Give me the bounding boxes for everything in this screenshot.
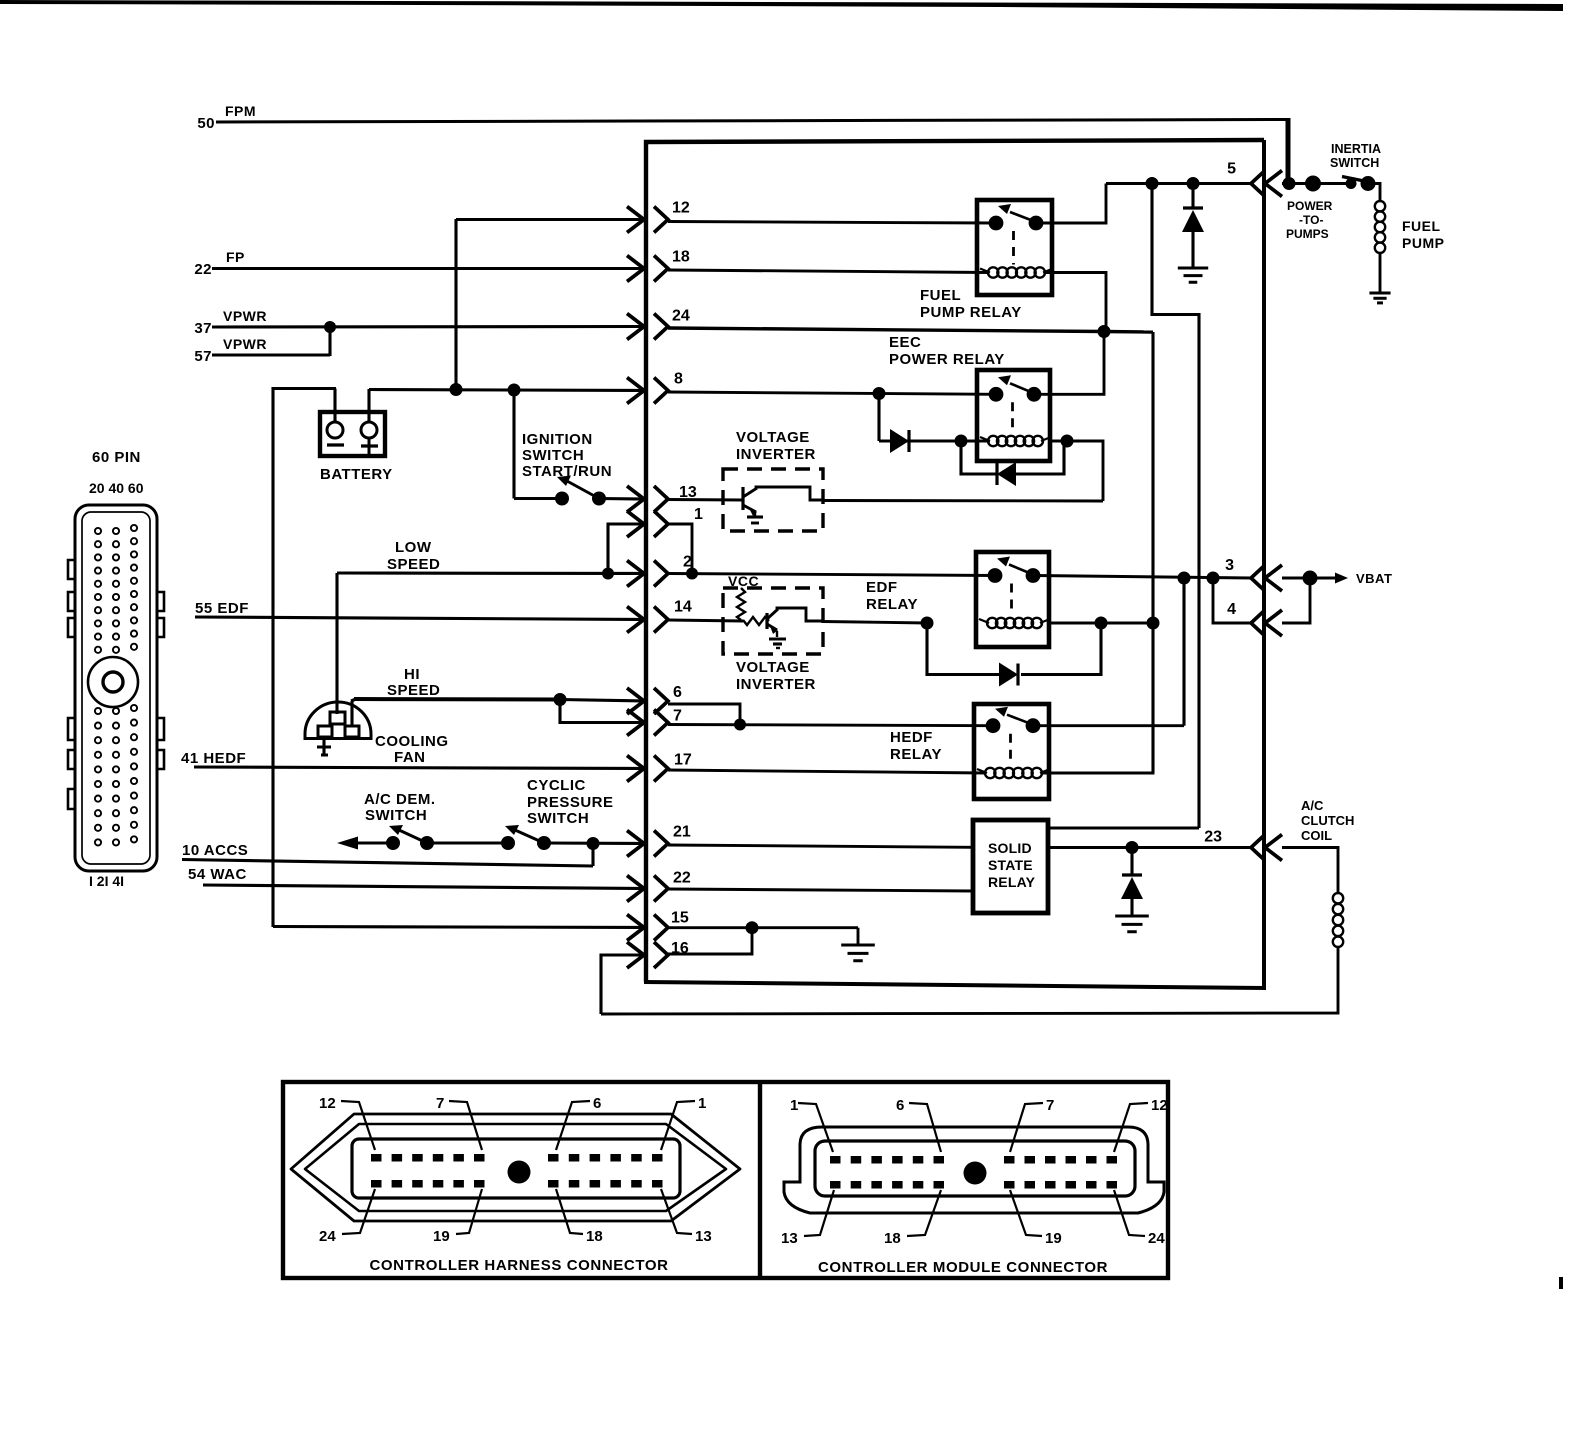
pin 23 entry xyxy=(1204,829,1282,861)
svg-text:SPEED: SPEED xyxy=(387,682,440,699)
wire pin 14 to inverter 2 xyxy=(668,620,743,621)
pin 18 entry xyxy=(627,249,690,282)
pin 21 entry xyxy=(627,824,691,857)
wire pin4 to VBAT xyxy=(1282,578,1310,623)
module pin 18 label xyxy=(884,1190,941,1247)
node pin 8 diode branch xyxy=(873,387,886,400)
harness pin 12 label xyxy=(319,1095,375,1150)
svg-text:13: 13 xyxy=(781,1230,798,1247)
label EDF relay xyxy=(866,579,918,613)
svg-text:COIL: COIL xyxy=(1301,828,1332,843)
harness pin 1 label xyxy=(661,1095,706,1150)
svg-text:23: 23 xyxy=(1204,829,1222,846)
svg-text:8: 8 xyxy=(674,371,683,388)
svg-text:SWITCH: SWITCH xyxy=(1330,156,1379,170)
label voltage inverter 2 xyxy=(736,659,816,693)
node EEC coil right xyxy=(1061,435,1074,448)
wire pin3 to VBAT xyxy=(1282,577,1310,580)
diode CR5 to ground xyxy=(1115,848,1149,932)
svg-text:INERTIA: INERTIA xyxy=(1331,142,1381,156)
svg-text:PUMP RELAY: PUMP RELAY xyxy=(920,304,1022,321)
svg-text:STATE: STATE xyxy=(988,857,1033,873)
wire HEDF feed drop xyxy=(1182,578,1185,726)
pin 5 entry xyxy=(1227,161,1282,197)
wire between switches xyxy=(427,841,508,844)
label inertia switch xyxy=(1330,142,1381,170)
wire EEC coil right path xyxy=(1050,441,1103,501)
wire 41 HEDF to pin 17 xyxy=(194,767,644,769)
svg-text:18: 18 xyxy=(586,1228,603,1245)
wire clutch coil return xyxy=(601,947,1338,1014)
svg-text:POWER RELAY: POWER RELAY xyxy=(889,351,1005,368)
svg-text:FUEL: FUEL xyxy=(1402,218,1441,234)
svg-text:LOW: LOW xyxy=(395,539,432,556)
label hi speed xyxy=(387,666,440,699)
svg-text:VOLTAGE: VOLTAGE xyxy=(736,429,810,446)
label controller module connector xyxy=(818,1259,1108,1276)
label low speed xyxy=(387,539,440,573)
wire 54 WAC to pin 22 xyxy=(203,885,644,889)
node power junction xyxy=(1305,176,1321,192)
wire VPWR to EDF-HEDF rail xyxy=(1104,332,1153,774)
scan artifact top bar xyxy=(0,0,1563,11)
60 pin connector J1 xyxy=(68,505,164,871)
svg-text:60 PIN: 60 PIN xyxy=(92,449,141,466)
wire diode to coil xyxy=(879,440,990,443)
wire SSR to pin 23 xyxy=(1048,846,1251,849)
svg-text:PUMPS: PUMPS xyxy=(1286,227,1329,241)
wire pin 13 to inverter xyxy=(668,498,743,501)
harness connector pins xyxy=(371,1154,663,1188)
svg-text:EDF: EDF xyxy=(866,579,898,596)
svg-text:4: 4 xyxy=(1227,601,1236,618)
wire ignition switch to pin 13 xyxy=(599,497,644,501)
A/C clutch coil L1 xyxy=(1333,893,1343,947)
svg-text:CLUTCH: CLUTCH xyxy=(1301,813,1354,828)
module pin 1 label xyxy=(790,1097,833,1152)
node EEC coil left xyxy=(955,435,968,448)
svg-text:7: 7 xyxy=(436,1095,444,1112)
svg-text:PRESSURE: PRESSURE xyxy=(527,794,614,811)
wire VPWR to pin 24 xyxy=(212,325,644,329)
wire pin 5 to inertia switch xyxy=(1282,182,1352,185)
wire inertia to fuel pump xyxy=(1368,184,1380,202)
fuel pump relay K1 xyxy=(977,200,1053,295)
svg-text:1: 1 xyxy=(694,506,703,523)
wire 10 ACCS xyxy=(182,843,593,866)
svg-text:55 EDF: 55 EDF xyxy=(195,600,249,617)
svg-text:1: 1 xyxy=(698,1095,706,1112)
label voltage inverter 1 xyxy=(736,429,816,463)
node VBAT/ignition branch xyxy=(508,384,521,397)
label cyclic pressure switch xyxy=(527,777,614,827)
label solid state relay xyxy=(988,840,1036,890)
EEC power relay K2 xyxy=(977,370,1051,461)
svg-text:FAN: FAN xyxy=(394,749,426,766)
module connector center hole xyxy=(964,1162,987,1185)
wire EEC relay switch output xyxy=(1035,332,1104,395)
svg-text:5: 5 xyxy=(1227,161,1236,178)
module pin 7 label xyxy=(1010,1097,1054,1152)
svg-text:VBAT: VBAT xyxy=(1356,571,1392,586)
fuel pump coil M2 xyxy=(1375,201,1385,253)
voltage inverter U2 xyxy=(723,588,823,654)
wire FPM pin50 to top right xyxy=(216,120,1288,123)
node FPM / power-to-pumps junction xyxy=(1283,177,1296,190)
pin 7 entry xyxy=(627,708,682,736)
wire pin5 branch to SSR rail xyxy=(1152,184,1199,829)
wire pin 12 branch vertical xyxy=(454,219,457,389)
label EEC power relay xyxy=(889,334,1005,368)
pin 13 entry xyxy=(627,484,697,512)
cooling fan M1 xyxy=(305,702,371,739)
node pin5 diode branch xyxy=(1187,177,1200,190)
label fuel pump relay xyxy=(920,287,1022,321)
wire fuel pump relay coil output xyxy=(1046,273,1106,332)
wire EDF switch output pin 3 xyxy=(1035,576,1251,579)
wire pin 7 to HEDF switch xyxy=(668,725,993,726)
svg-text:A/C DEM.: A/C DEM. xyxy=(364,791,436,808)
voltage inverter U1 xyxy=(723,469,823,531)
svg-text:RELAY: RELAY xyxy=(988,874,1036,890)
label battery xyxy=(320,466,393,483)
svg-text:14: 14 xyxy=(674,599,692,616)
module pin 19 label xyxy=(1010,1190,1062,1247)
wire inverter 2 output to EDF coil xyxy=(823,622,927,624)
svg-text:SPEED: SPEED xyxy=(387,556,440,573)
svg-text:INVERTER: INVERTER xyxy=(736,446,816,463)
node low speed / pin1 bracket xyxy=(602,568,614,580)
node pin3 pin4 branch xyxy=(1207,572,1220,585)
svg-text:RELAY: RELAY xyxy=(866,596,918,613)
svg-text:12: 12 xyxy=(319,1095,336,1112)
HEDF relay K4 xyxy=(974,704,1050,799)
svg-text:SWITCH: SWITCH xyxy=(522,447,584,464)
wire pin 24 to VPWR node xyxy=(668,328,1104,332)
wire pin 22 to SSR xyxy=(668,889,973,891)
pin 24 entry xyxy=(627,308,690,340)
svg-text:19: 19 xyxy=(433,1228,450,1245)
harness pin 13 label xyxy=(661,1189,712,1245)
svg-text:PUMP: PUMP xyxy=(1402,235,1444,251)
wire pin 4 inside bracket xyxy=(1213,578,1251,623)
node hi speed / pin 7 bracket xyxy=(554,693,567,706)
wire pin 17 to HEDF coil xyxy=(668,770,985,773)
label 60 pin xyxy=(92,449,141,466)
wire ground rail left xyxy=(271,387,274,927)
svg-text:22: 22 xyxy=(673,870,691,887)
diode CR1 to ground xyxy=(1178,184,1208,283)
A/C demand switch S2 xyxy=(386,825,434,850)
svg-text:10 ACCS: 10 ACCS xyxy=(182,842,248,859)
svg-text:20 40 60: 20 40 60 xyxy=(89,480,144,496)
wire hi speed thick xyxy=(354,697,560,702)
label 20 40 60 xyxy=(89,480,144,496)
ignition switch S1 xyxy=(555,476,606,506)
svg-text:6: 6 xyxy=(673,684,682,701)
label pin 57 VPWR xyxy=(194,336,267,365)
pin 1 entry xyxy=(627,506,703,537)
svg-text:FPM: FPM xyxy=(225,103,256,119)
svg-text:FP: FP xyxy=(226,249,245,265)
harness pin 19 label xyxy=(433,1189,482,1245)
node EDF VPWR junction xyxy=(1147,617,1160,630)
svg-text:1: 1 xyxy=(790,1097,798,1114)
svg-text:I 2I 4I: I 2I 4I xyxy=(89,873,124,889)
label 55 EDF xyxy=(195,600,249,617)
node VPWR junction xyxy=(324,321,336,333)
wire rail to pin 15 xyxy=(273,927,644,928)
wire A/C return to pin 16 xyxy=(601,955,644,1014)
wire ignition feed to switch xyxy=(514,497,562,500)
controller harness connector body xyxy=(291,1114,740,1221)
ground controller internal xyxy=(841,928,875,961)
cyclic pressure switch S3 xyxy=(501,825,551,850)
wire ignition feed drop xyxy=(512,390,515,499)
wire inverter 1 output xyxy=(823,499,1103,502)
wire hi speed fan riser xyxy=(351,699,356,727)
svg-text:-TO-: -TO- xyxy=(1299,213,1323,227)
wire fuel pump relay switch output xyxy=(1036,184,1106,224)
pin 12 entry xyxy=(627,200,690,233)
label fuel pump xyxy=(1402,218,1444,251)
harness pin 18 label xyxy=(556,1189,603,1245)
harness connector center hole xyxy=(508,1161,531,1184)
wire pin 16 bracket xyxy=(668,928,752,954)
svg-text:START/RUN: START/RUN xyxy=(522,463,612,480)
node pin3 HEDF branch xyxy=(1178,572,1191,585)
wire pin 15 to ground xyxy=(668,926,858,929)
svg-text:6: 6 xyxy=(896,1097,904,1114)
wire cyclic switch to pin 21 xyxy=(544,841,644,845)
pin 2 entry xyxy=(627,554,692,587)
pin 3 entry xyxy=(1225,557,1282,591)
diode CR2 series xyxy=(890,429,909,453)
svg-text:POWER: POWER xyxy=(1287,199,1333,213)
node pin23 diode branch xyxy=(1126,841,1139,854)
svg-text:7: 7 xyxy=(1046,1097,1054,1114)
wire pin 8 to EEC relay xyxy=(668,392,996,394)
wire pin 21 to SSR xyxy=(668,845,973,847)
wire pin 12 to fuel pump relay xyxy=(668,222,995,224)
pin 6 entry xyxy=(627,684,682,714)
wire 55 EDF to pin 14 xyxy=(195,617,644,620)
svg-text:37: 37 xyxy=(194,320,212,337)
svg-text:CONTROLLER MODULE CONNECTOR: CONTROLLER MODULE CONNECTOR xyxy=(818,1259,1108,1276)
wire HEDF switch output xyxy=(1032,724,1184,727)
label ignition switch xyxy=(522,431,612,480)
label cooling fan xyxy=(375,733,449,766)
svg-text:SWITCH: SWITCH xyxy=(365,807,427,824)
pin 17 entry xyxy=(627,752,692,782)
svg-text:21: 21 xyxy=(673,824,691,841)
svg-text:CONTROLLER HARNESS CONNECTOR: CONTROLLER HARNESS CONNECTOR xyxy=(369,1257,668,1274)
svg-text:FUEL: FUEL xyxy=(920,287,961,304)
wire pin 7 outside bracket xyxy=(560,700,644,723)
wire pin 18 to relay coil xyxy=(668,270,988,273)
wire pin 5 inside xyxy=(1106,182,1251,185)
svg-text:3: 3 xyxy=(1225,557,1234,574)
module pin 24 label xyxy=(1114,1190,1165,1247)
label A/C clutch coil xyxy=(1301,798,1354,843)
node pin 15 ground junction xyxy=(746,921,759,934)
label A/C DEM switch xyxy=(364,791,436,824)
svg-text:HEDF: HEDF xyxy=(890,729,933,746)
svg-text:24: 24 xyxy=(672,308,690,325)
svg-text:7: 7 xyxy=(673,708,682,725)
svg-text:18: 18 xyxy=(672,249,690,266)
node EDF coil left xyxy=(921,617,934,630)
pin 15 entry xyxy=(627,910,689,941)
svg-text:INVERTER: INVERTER xyxy=(736,676,816,693)
pin 14 entry xyxy=(627,599,692,633)
svg-text:VPWR: VPWR xyxy=(223,308,267,324)
label 1 21 41 xyxy=(89,873,124,889)
node pin5 branch xyxy=(1146,177,1159,190)
wire pin8 diode drop xyxy=(877,394,880,442)
pin 8 entry xyxy=(627,371,683,404)
wire SSR top output xyxy=(1048,826,1199,829)
wire battery plus riser xyxy=(367,389,370,421)
wire VBAT feed to pin 8 xyxy=(369,390,644,391)
wire VPWR 57 stub xyxy=(212,327,330,356)
svg-text:17: 17 xyxy=(674,752,692,769)
label 10 ACCS xyxy=(182,842,248,859)
wire FP to pin 18 xyxy=(212,267,644,270)
svg-text:12: 12 xyxy=(672,200,690,217)
wire pin 1 outside bracket xyxy=(608,524,644,573)
EDF relay K3 xyxy=(976,552,1050,647)
svg-text:CYCLIC: CYCLIC xyxy=(527,777,586,794)
battery B1 xyxy=(320,412,385,456)
svg-text:SWITCH: SWITCH xyxy=(527,810,589,827)
pin 22 entry xyxy=(627,870,691,902)
wire fuel pump to ground xyxy=(1379,253,1382,293)
inertia switch S4 xyxy=(1342,176,1376,191)
EDF flyback diode CR4 xyxy=(927,623,1101,687)
label pin 37 VPWR xyxy=(194,308,267,337)
svg-text:13: 13 xyxy=(695,1228,712,1245)
pin 4 entry xyxy=(1227,601,1282,636)
label VBAT xyxy=(1356,571,1392,586)
node pin 2 junction xyxy=(686,568,698,580)
arrow VBAT xyxy=(1310,573,1348,584)
svg-text:IGNITION: IGNITION xyxy=(522,431,593,448)
ground cooling fan xyxy=(317,737,331,755)
EEC flyback diode CR3 xyxy=(961,441,1064,486)
ground fuel pump xyxy=(1369,293,1390,303)
wire low speed drop to fan xyxy=(335,573,338,714)
connector section frame xyxy=(283,1082,1168,1278)
label pin 50 FPM xyxy=(197,103,256,132)
module pin 12 label xyxy=(1114,1097,1168,1152)
svg-text:6: 6 xyxy=(593,1095,601,1112)
svg-text:A/C: A/C xyxy=(1301,798,1324,813)
svg-text:22: 22 xyxy=(194,261,212,278)
svg-text:54 WAC: 54 WAC xyxy=(188,866,247,883)
node VBAT/pin12 branch xyxy=(450,383,463,396)
node VPWR / relay junction xyxy=(1098,325,1111,338)
wire EDF coil to VPWR rail xyxy=(1049,622,1153,625)
node VBAT junction xyxy=(1303,571,1318,586)
label pin 22 FP xyxy=(194,249,245,278)
harness pin 24 label xyxy=(319,1189,375,1245)
harness pin 6 label xyxy=(556,1095,601,1150)
wire pin 23 to clutch coil xyxy=(1282,848,1338,894)
module connector pins xyxy=(830,1156,1117,1189)
svg-text:12: 12 xyxy=(1151,1097,1168,1114)
svg-text:BATTERY: BATTERY xyxy=(320,466,393,483)
svg-text:24: 24 xyxy=(1148,1230,1165,1247)
wire pin 1 inside bracket xyxy=(668,524,692,573)
label VCC xyxy=(728,573,759,589)
node EDF coil right xyxy=(1095,617,1108,630)
wire battery minus to ground rail xyxy=(273,389,336,422)
svg-text:41 HEDF: 41 HEDF xyxy=(181,750,246,767)
EEC controller box outline xyxy=(644,140,1264,988)
svg-text:18: 18 xyxy=(884,1230,901,1247)
svg-text:VOLTAGE: VOLTAGE xyxy=(736,659,810,676)
node pin 7 junction xyxy=(734,719,746,731)
svg-text:COOLING: COOLING xyxy=(375,733,449,750)
label 41 HEDF xyxy=(181,750,246,767)
wire pin 2 to EDF switch xyxy=(668,574,995,576)
svg-text:19: 19 xyxy=(1045,1230,1062,1247)
wire pin 6 inside bracket xyxy=(668,704,740,724)
svg-text:EEC: EEC xyxy=(889,334,921,351)
wire HEDF coil to VPWR rail xyxy=(1043,625,1153,773)
module pin 6 label xyxy=(896,1097,941,1152)
svg-text:50: 50 xyxy=(197,115,215,132)
wire hi speed to pin 6 xyxy=(560,700,644,702)
controller module connector body xyxy=(784,1127,1164,1213)
solid state relay K5 xyxy=(973,820,1048,913)
scan artifact tick bottom right xyxy=(1559,1277,1563,1289)
harness pin 7 label xyxy=(436,1095,482,1150)
arrow accs line left xyxy=(337,837,393,850)
wire FPM vertical drop xyxy=(1286,118,1291,184)
svg-text:15: 15 xyxy=(671,910,689,927)
pin 16 entry xyxy=(627,940,689,968)
svg-text:SOLID: SOLID xyxy=(988,840,1032,856)
svg-text:VPWR: VPWR xyxy=(223,336,267,352)
svg-text:HI: HI xyxy=(404,666,420,683)
wire pin 12 feed xyxy=(456,218,644,221)
wire low speed horizontal xyxy=(337,571,644,575)
svg-text:57: 57 xyxy=(194,348,212,365)
svg-text:24: 24 xyxy=(319,1228,336,1245)
label power to pumps xyxy=(1286,199,1333,241)
svg-text:RELAY: RELAY xyxy=(890,746,942,763)
node accs junction xyxy=(587,837,600,850)
label 54 WAC xyxy=(188,866,247,883)
label controller harness connector xyxy=(369,1257,668,1274)
module pin 13 label xyxy=(781,1190,834,1247)
label HEDF relay xyxy=(890,729,942,763)
